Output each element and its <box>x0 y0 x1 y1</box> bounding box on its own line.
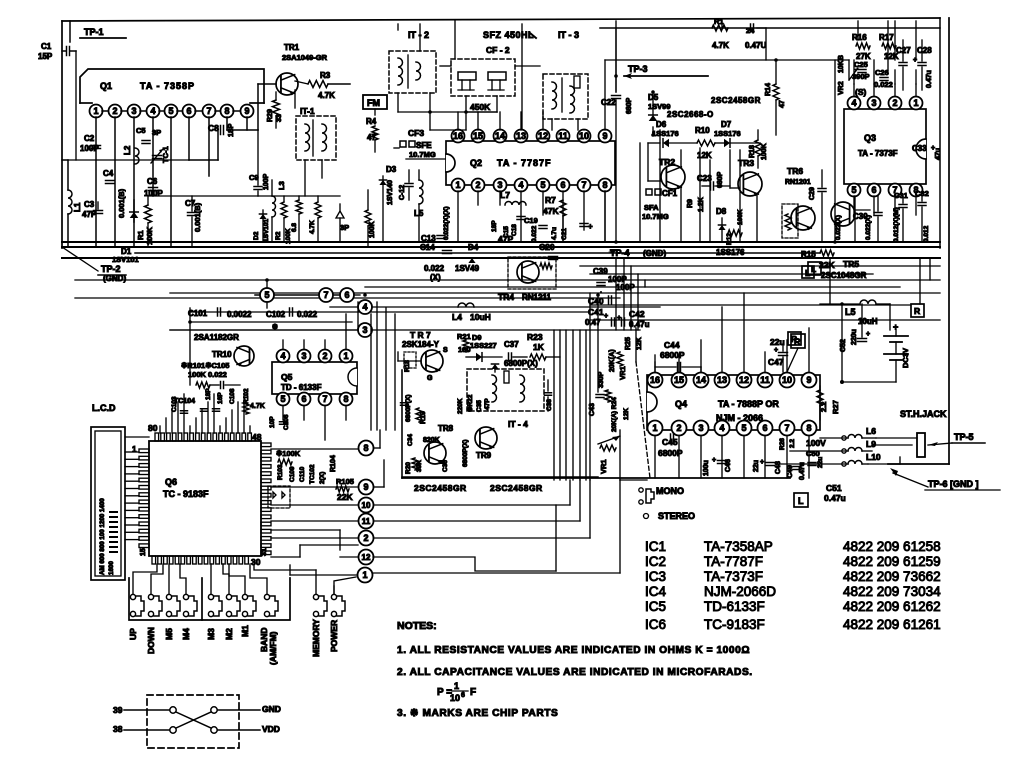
node 3 circle <box>358 323 372 337</box>
transformer IT-2 dashed box <box>389 51 436 93</box>
svg-text:4: 4 <box>518 180 523 190</box>
svg-text:C108: C108 <box>229 388 236 404</box>
switch M2 <box>226 594 231 599</box>
svg-text:4.7K: 4.7K <box>712 41 729 50</box>
svg-text:TR10: TR10 <box>212 350 232 359</box>
svg-text:D2: D2 <box>253 231 260 240</box>
svg-text:1: 1 <box>343 351 348 361</box>
svg-text:TA-7787F: TA-7787F <box>704 554 763 569</box>
svg-text:4.7u: 4.7u <box>551 227 558 240</box>
svg-text:R27: R27 <box>831 400 840 414</box>
wires circle column top <box>266 280 268 288</box>
svg-text:2SC1048GR: 2SC1048GR <box>821 271 867 280</box>
svg-text:R25: R25 <box>625 337 632 350</box>
svg-text:0.001(B): 0.001(B) <box>117 188 126 218</box>
svg-text:1SV101: 1SV101 <box>112 255 139 264</box>
switch MEMORY <box>313 594 318 599</box>
svg-text:※100K: ※100K <box>276 449 301 458</box>
svg-text:VR1: VR1 <box>599 459 608 474</box>
wire node row y196 <box>148 195 258 197</box>
pins 5-8 of Q5 bottom <box>277 393 290 406</box>
node 12 circle <box>359 550 374 565</box>
svg-text:7: 7 <box>784 423 789 433</box>
svg-text:CF - 2: CF - 2 <box>486 45 510 55</box>
svg-text:10.7MG: 10.7MG <box>642 212 669 221</box>
svg-text:M3: M3 <box>206 628 216 640</box>
svg-text:2: 2 <box>322 351 327 361</box>
svg-text:15: 15 <box>140 548 147 556</box>
svg-text:D7: D7 <box>721 120 732 129</box>
svg-text:5: 5 <box>264 290 269 300</box>
svg-text:48: 48 <box>252 432 262 442</box>
svg-text:C19: C19 <box>524 216 538 225</box>
svg-text:※: ※ <box>272 323 278 331</box>
svg-text:0.0022: 0.0022 <box>227 310 252 319</box>
svg-text:6: 6 <box>301 394 306 404</box>
svg-text:13: 13 <box>516 131 526 141</box>
svg-text:T R 7: T R 7 <box>410 330 431 340</box>
svg-text:C102: C102 <box>266 310 286 319</box>
wire top second border <box>600 27 940 29</box>
wire node9 right <box>374 486 384 488</box>
svg-text:8: 8 <box>224 106 229 116</box>
svg-text:C9: C9 <box>249 173 259 182</box>
svg-text:8: 8 <box>343 394 348 404</box>
svg-text:VR1: VR1 <box>620 366 627 380</box>
R box mid <box>788 332 801 345</box>
svg-text:CF3: CF3 <box>408 128 424 138</box>
svg-text:330P: 330P <box>598 371 605 388</box>
svg-text:3: 3 <box>362 325 367 335</box>
svg-text:38: 38 <box>113 724 123 734</box>
svg-text:TP-5: TP-5 <box>954 432 974 442</box>
svg-text:D4: D4 <box>468 243 479 252</box>
svg-text:+: + <box>866 331 870 338</box>
svg-text:39: 39 <box>113 705 123 715</box>
svg-text:1SV140: 1SV140 <box>387 180 394 205</box>
svg-text:9: 9 <box>363 482 368 492</box>
svg-text:R103: R103 <box>277 464 284 480</box>
svg-text:C4: C4 <box>103 169 114 178</box>
svg-text:680P: 680P <box>626 97 633 114</box>
svg-text:8: 8 <box>806 423 811 433</box>
wire horizontals TR7 region <box>397 352 399 361</box>
svg-text:C1: C1 <box>41 42 52 51</box>
diode D1 1SV101 <box>130 212 139 218</box>
L box left <box>808 262 821 275</box>
svg-text:R10: R10 <box>695 126 710 135</box>
svg-text:G: G <box>427 375 433 382</box>
svg-text:9: 9 <box>602 131 607 141</box>
switch cross contacts <box>170 707 176 713</box>
svg-text:L: L <box>798 496 804 506</box>
wire bus rail 3 <box>135 252 820 254</box>
svg-text:10: 10 <box>450 693 460 703</box>
svg-text:+: + <box>604 313 608 320</box>
svg-text:0.47u: 0.47u <box>629 320 650 329</box>
svg-text:6: 6 <box>871 185 876 195</box>
wire TR1 collector down <box>294 90 296 108</box>
svg-text:C38: C38 <box>546 399 553 411</box>
svg-text:4822 209 61258: 4822 209 61258 <box>843 539 941 554</box>
wire right border outer <box>948 18 950 464</box>
svg-text:C33: C33 <box>912 144 927 153</box>
svg-text:C28: C28 <box>917 46 932 55</box>
svg-text:TR8: TR8 <box>438 424 454 433</box>
wire memory from Q6 <box>254 564 316 570</box>
svg-text:(AM/FM): (AM/FM) <box>268 631 278 665</box>
svg-text:18P: 18P <box>226 124 235 137</box>
svg-text:20K(A): 20K(A) <box>609 349 616 372</box>
svg-text:TR1: TR1 <box>284 43 300 52</box>
svg-text:C8: C8 <box>208 123 219 133</box>
label FM box <box>363 95 387 109</box>
svg-text:TP-3: TP-3 <box>628 64 648 74</box>
svg-text:1K: 1K <box>533 342 545 352</box>
svg-text:R16: R16 <box>852 33 867 42</box>
wires Q6 top cluster verticals <box>159 426 161 433</box>
svg-text:15P: 15P <box>38 52 53 61</box>
switch POWER <box>331 594 336 599</box>
resistor R2 100K <box>281 202 287 218</box>
svg-text:R19: R19 <box>420 411 427 424</box>
svg-text:5: 5 <box>741 423 746 433</box>
wires LCD to Q6 <box>125 451 139 453</box>
svg-text:C48: C48 <box>775 461 782 474</box>
inductor L9 <box>848 448 862 452</box>
transistor TR4 RN1211 dashed box <box>508 257 556 289</box>
wires C27 C28 leads <box>902 40 904 61</box>
svg-text:IC5: IC5 <box>645 599 666 614</box>
svg-text:12: 12 <box>538 131 548 141</box>
svg-text:0.47u: 0.47u <box>799 462 806 480</box>
switch crossover dashed box <box>147 695 239 748</box>
wires Q5 pins <box>282 406 284 420</box>
wire node10 right <box>374 504 570 506</box>
svg-text:2SC2668-O: 2SC2668-O <box>667 110 714 119</box>
svg-text:Q6: Q6 <box>165 477 177 487</box>
svg-text:IT - 2: IT - 2 <box>408 30 429 40</box>
node 1 circle <box>358 568 373 583</box>
wire rail TR8 bottom <box>402 476 598 478</box>
svg-text:C14: C14 <box>420 243 435 252</box>
svg-text:Q5: Q5 <box>281 372 293 382</box>
svg-text:16: 16 <box>453 131 463 141</box>
wires verticals right of Q5 <box>376 302 378 430</box>
switch M3 <box>208 594 213 599</box>
svg-text:+: + <box>760 459 764 466</box>
wires Q4 left verticals <box>589 293 591 480</box>
svg-text:12K: 12K <box>636 337 643 350</box>
transistor TR5 2SC1048GR <box>831 202 855 226</box>
svg-text:15: 15 <box>674 375 684 385</box>
svg-text:1: 1 <box>652 423 657 433</box>
svg-text:0.022: 0.022 <box>297 310 318 319</box>
L box mid <box>802 266 814 278</box>
svg-text:F: F <box>470 687 476 698</box>
op-amp U3 Q3 TA-7373F box <box>844 109 926 184</box>
svg-text:+: + <box>617 315 621 322</box>
svg-text:10uH: 10uH <box>858 317 878 326</box>
svg-text:C34: C34 <box>407 434 414 446</box>
svg-text:3: 3 <box>871 98 876 108</box>
wires Q2 bottom pins down <box>457 191 459 242</box>
node 10 circle <box>359 498 374 513</box>
svg-text:TD-6133F: TD-6133F <box>704 599 765 614</box>
svg-text:TP-6 [GND ]: TP-6 [GND ] <box>928 479 979 489</box>
svg-text:SFZ 450HL: SFZ 450HL <box>483 30 534 40</box>
pins 1-9 of Q1 <box>90 105 103 118</box>
svg-text:2: 2 <box>112 106 117 116</box>
svg-text:5: 5 <box>851 185 856 195</box>
dashed box small <box>268 486 290 508</box>
svg-text:L6: L6 <box>866 426 876 436</box>
svg-text:S: S <box>443 347 448 354</box>
wire node1 right <box>373 572 620 574</box>
svg-text:CF1: CF1 <box>662 189 678 198</box>
svg-text:12K: 12K <box>697 151 712 160</box>
svg-text:M1: M1 <box>240 625 250 637</box>
node 5 circle <box>260 288 274 302</box>
wire IT1 downs <box>304 160 306 196</box>
svg-text:ST.H.JACK: ST.H.JACK <box>900 409 947 419</box>
pins Q6 top stubs <box>155 433 159 441</box>
svg-text:IC6: IC6 <box>645 617 666 632</box>
svg-text:4: 4 <box>719 423 724 433</box>
svg-text:R23: R23 <box>527 332 543 342</box>
svg-text:R: R <box>914 306 920 316</box>
wire verticals left of TR7 <box>357 302 359 330</box>
svg-text:FM: FM <box>367 98 380 108</box>
svg-text:C20: C20 <box>539 242 555 252</box>
svg-text:3P: 3P <box>340 223 349 232</box>
svg-text:C110: C110 <box>299 466 306 482</box>
wires verticals under TR8/TR9 <box>401 370 403 478</box>
svg-text:D6: D6 <box>656 120 667 129</box>
svg-text:R29: R29 <box>267 109 274 122</box>
svg-text:3: 3 <box>131 106 136 116</box>
svg-text:DOWN: DOWN <box>146 627 156 654</box>
svg-text:0.022(X): 0.022(X) <box>835 215 842 240</box>
svg-text:C109: C109 <box>289 466 296 482</box>
svg-text:5: 5 <box>168 106 173 116</box>
svg-text:14: 14 <box>696 375 706 385</box>
svg-text:L4: L4 <box>452 312 462 322</box>
svg-text:M2: M2 <box>224 628 234 640</box>
svg-text:TP-4: TP-4 <box>610 248 630 258</box>
svg-text:(X): (X) <box>430 273 441 282</box>
svg-text:+: + <box>931 145 935 152</box>
svg-text:0.47: 0.47 <box>585 318 601 327</box>
svg-text:11: 11 <box>558 131 568 141</box>
svg-text:C39: C39 <box>593 267 608 276</box>
svg-text:L5: L5 <box>845 307 856 317</box>
inductor L6 <box>848 435 862 439</box>
svg-text:3P: 3P <box>152 128 161 137</box>
svg-text:C3: C3 <box>84 200 95 209</box>
svg-text:10.7MG: 10.7MG <box>409 150 436 159</box>
wire Q1 pin6 to C8 <box>189 159 218 161</box>
svg-text:1SS176: 1SS176 <box>652 129 679 138</box>
svg-text:IC4: IC4 <box>645 584 667 599</box>
svg-text:VDD: VDD <box>262 724 280 734</box>
svg-text:47K: 47K <box>543 206 559 216</box>
svg-text:IT - 4: IT - 4 <box>508 419 528 429</box>
svg-text:2: 2 <box>475 180 480 190</box>
svg-text:2: 2 <box>892 98 897 108</box>
svg-text:8: 8 <box>363 443 368 453</box>
svg-text:C22: C22 <box>601 98 616 107</box>
wire bottom rail under Q4 <box>402 477 790 479</box>
svg-text:3: 3 <box>301 351 306 361</box>
pins Q6 left stubs <box>139 449 149 453</box>
svg-text:47u: 47u <box>935 148 942 160</box>
wire bus rail 4 <box>62 257 940 259</box>
wire node8 right <box>374 447 380 449</box>
svg-text:0.001(B): 0.001(B) <box>193 202 202 232</box>
svg-text:TC102: TC102 <box>309 464 316 484</box>
svg-text:POWER: POWER <box>329 620 339 652</box>
svg-text:18P: 18P <box>491 220 498 232</box>
wire bus mid 10 <box>590 319 940 321</box>
wire right-mid verticals <box>834 60 836 242</box>
transformer IT-3 dashed box <box>543 74 588 119</box>
svg-text:6: 6 <box>461 692 465 699</box>
svg-text:1600: 1600 <box>108 561 115 575</box>
svg-text:10P: 10P <box>269 416 276 428</box>
svg-text:R9: R9 <box>687 199 694 208</box>
svg-text:10: 10 <box>362 501 371 510</box>
svg-text:2SA1182GR: 2SA1182GR <box>194 333 239 342</box>
svg-text:16: 16 <box>650 375 660 385</box>
wire bus mid 7 <box>75 297 620 299</box>
svg-text:47: 47 <box>779 100 786 108</box>
svg-text:30: 30 <box>251 557 261 567</box>
svg-text:4.7K: 4.7K <box>309 220 316 234</box>
svg-text:C35: C35 <box>476 400 483 412</box>
svg-text:C101: C101 <box>188 309 208 318</box>
svg-text:IT-1: IT-1 <box>300 106 315 116</box>
svg-text:15: 15 <box>473 131 483 141</box>
svg-text:(S): (S) <box>855 87 867 97</box>
svg-text:VR2: VR2 <box>838 81 845 95</box>
wires Q1 pins down <box>95 117 97 247</box>
svg-text:0.47u: 0.47u <box>824 493 846 503</box>
svg-text:D8: D8 <box>716 207 727 216</box>
op-amp U5 Q5 TD-6133F box <box>272 362 357 394</box>
svg-text:5: 5 <box>280 394 285 404</box>
wire bus mid 1 <box>580 265 940 267</box>
wire left border <box>61 21 63 248</box>
wire bus mid 11 <box>170 329 640 331</box>
pins 5-8 of Q3 bottom <box>848 184 861 197</box>
svg-text:10KB: 10KB <box>838 55 845 73</box>
svg-text:IC1: IC1 <box>645 539 666 554</box>
svg-text:RN1211: RN1211 <box>522 293 551 302</box>
svg-text:6.8: 6.8 <box>291 223 298 232</box>
switch BAND <box>264 594 269 599</box>
svg-text:TR6: TR6 <box>787 166 803 176</box>
svg-text:0.012(X)(M): 0.012(X)(M) <box>893 207 900 242</box>
wire L4 line <box>354 294 360 296</box>
switch M5 <box>166 594 171 599</box>
svg-text:DC3V: DC3V <box>901 348 910 368</box>
wire node row y160 <box>96 159 189 161</box>
svg-text:+: + <box>588 222 593 231</box>
wire pin9 top link <box>605 59 776 61</box>
wire bus mid 3 <box>75 279 620 281</box>
svg-text:16P: 16P <box>217 392 224 404</box>
wire bus mid 6 <box>255 294 352 296</box>
svg-text:Q4: Q4 <box>675 399 687 409</box>
svg-text:47P: 47P <box>82 210 97 219</box>
svg-text:4822 209 73034: 4822 209 73034 <box>843 584 941 599</box>
svg-text:0.022(X)(X): 0.022(X)(X) <box>443 206 450 240</box>
svg-text:3. ※ MARKS ARE CHIP PART: 3. ※ MARKS ARE CHIP PARTS <box>397 708 558 719</box>
wire node12 right <box>373 557 556 571</box>
svg-text:R4: R4 <box>366 117 377 126</box>
switch UP <box>130 594 135 599</box>
svg-text:0.022: 0.022 <box>424 264 445 273</box>
svg-text:※R101※C105: ※R101※C105 <box>181 361 229 370</box>
wire verticals right band <box>776 59 849 61</box>
svg-text:7: 7 <box>206 106 211 116</box>
svg-text:C2: C2 <box>84 134 95 143</box>
svg-text:100K: 100K <box>761 143 768 160</box>
svg-text:C21: C21 <box>561 228 568 240</box>
svg-text:6: 6 <box>344 290 349 300</box>
wires verticals between IT-4 and Q4 <box>553 330 555 480</box>
svg-text:TP-2: TP-2 <box>101 264 121 274</box>
L box q4 <box>794 493 808 507</box>
wire verticals top mid <box>615 21 617 92</box>
svg-text:M4: M4 <box>181 628 191 640</box>
svg-text:4.7K: 4.7K <box>318 91 335 100</box>
wires Q3 pins <box>853 84 855 96</box>
svg-text:+: + <box>712 457 716 464</box>
wire verticals band to Q4 <box>623 258 625 330</box>
switch group box <box>129 578 290 620</box>
junction dots <box>614 74 618 78</box>
svg-text:6800P: 6800P <box>660 350 685 360</box>
svg-text:2SC2458GR: 2SC2458GR <box>711 96 761 105</box>
svg-text:C26: C26 <box>875 68 889 77</box>
wire power from node1 <box>334 577 356 594</box>
svg-text:8: 8 <box>602 180 607 190</box>
svg-text:SFE: SFE <box>416 141 432 150</box>
svg-text:0.012: 0.012 <box>923 225 930 242</box>
op-amp U1 Q1 TA-7358P box <box>80 69 264 103</box>
wires Q6 right pins to node circles <box>271 448 358 450</box>
svg-text:R104: R104 <box>330 455 337 472</box>
svg-text:L.C.D: L.C.D <box>92 403 116 413</box>
svg-text:4: 4 <box>362 302 367 312</box>
svg-text:L7: L7 <box>500 190 510 200</box>
svg-text:IC2: IC2 <box>645 554 666 569</box>
svg-text:TA - 7373F: TA - 7373F <box>858 149 898 158</box>
svg-text:R105: R105 <box>336 477 354 486</box>
svg-text:TR9: TR9 <box>476 451 492 460</box>
svg-text:12: 12 <box>362 553 371 562</box>
svg-text:R7: R7 <box>545 195 556 205</box>
svg-text:C31: C31 <box>894 191 908 200</box>
svg-text:4: 4 <box>280 351 285 361</box>
svg-text:IC3: IC3 <box>645 569 666 584</box>
svg-text:1SS176: 1SS176 <box>714 129 741 138</box>
svg-text:220K: 220K <box>457 398 464 414</box>
svg-text:100P: 100P <box>616 283 635 292</box>
svg-text:1: 1 <box>362 570 367 580</box>
